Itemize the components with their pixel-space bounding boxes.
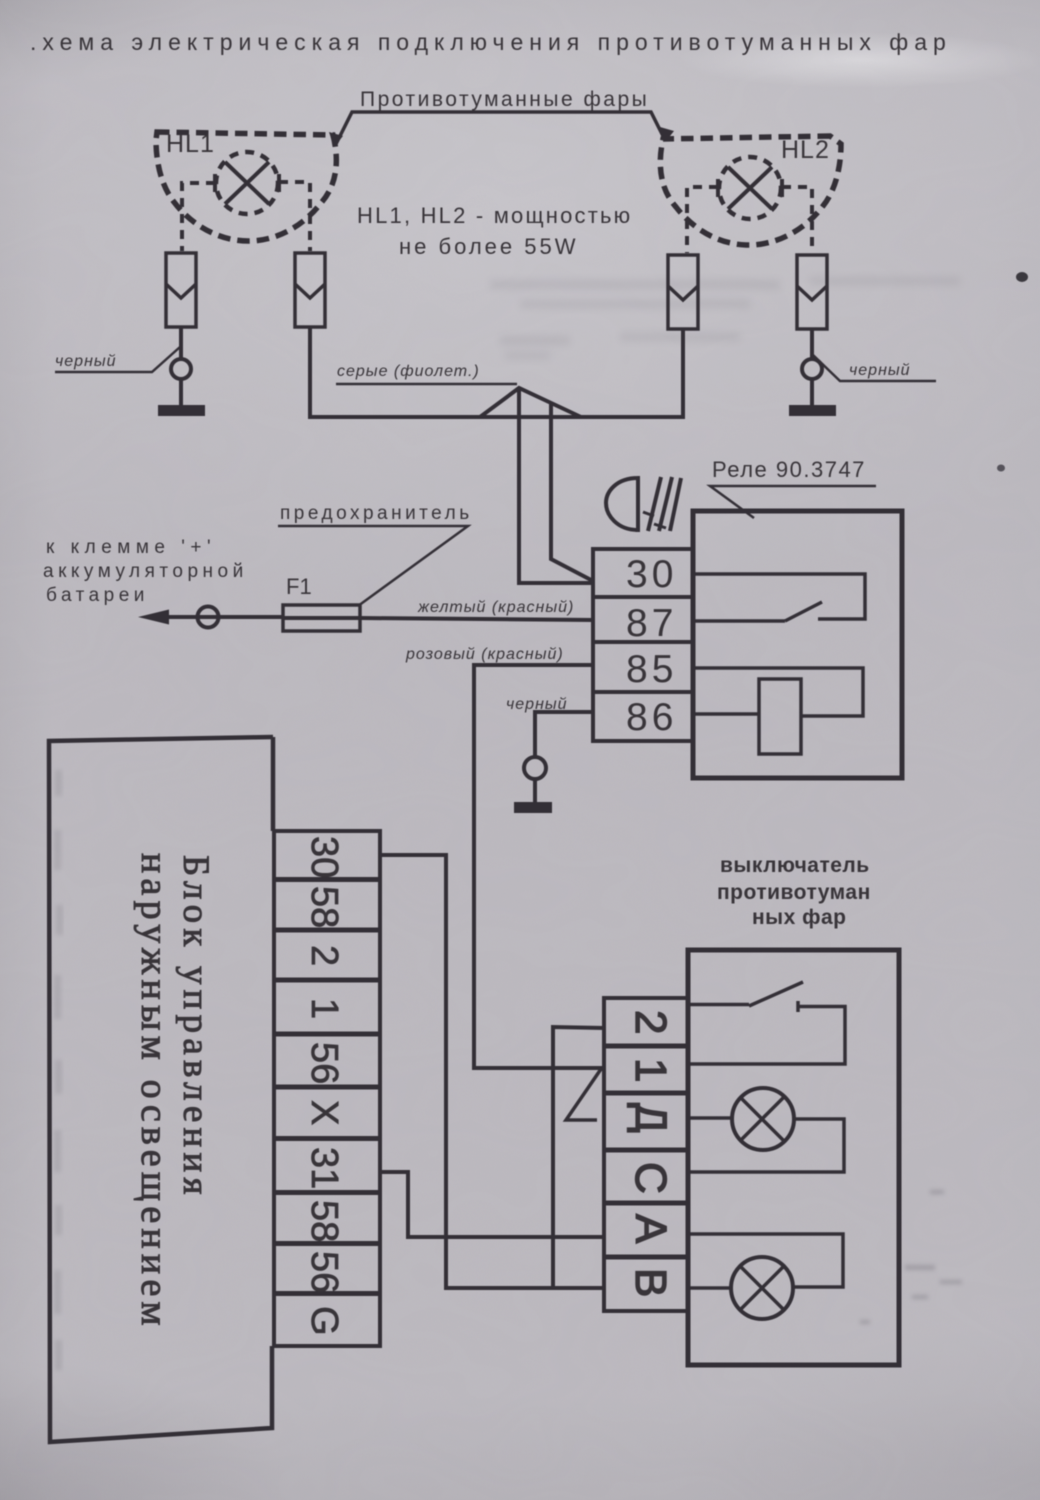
- relay pin 86: [593, 692, 693, 741]
- svg-text:86: 86: [626, 696, 677, 739]
- wire: HL2 lamp to connectors (dashed): [687, 187, 812, 253]
- svg-text:предохранитель: предохранитель: [280, 503, 473, 524]
- lamp symbol HL2: [718, 157, 782, 219]
- control unit pin 2: [303, 945, 345, 966]
- wire: X3 down: [681, 329, 685, 419]
- label: серые (фиолет.): [336, 363, 517, 384]
- wire: relay pin 86 to ground: [524, 712, 593, 802]
- svg-text:87: 87: [626, 602, 677, 645]
- switch pin Д: [626, 1103, 675, 1133]
- svg-text:аккумуляторной: аккумуляторной: [43, 561, 248, 582]
- relay pin 30: [593, 549, 693, 597]
- label: Реле 90.3747: [710, 457, 876, 518]
- label: наружным освещением (vertical): [133, 853, 175, 1331]
- control unit pin connector outline: [274, 831, 380, 1346]
- svg-text:А: А: [626, 1214, 675, 1244]
- scan artifact: ghost text band: [490, 277, 960, 359]
- control unit pin dividers: [274, 880, 380, 1294]
- wire: HL1 lamp to connectors (dashed): [182, 182, 310, 251]
- wire: battery to fuse: [162, 607, 283, 628]
- note: HL1 HL2 power rating: [357, 203, 632, 259]
- svg-text:Д: Д: [626, 1103, 675, 1133]
- svg-text:В: В: [626, 1268, 675, 1297]
- indicator lamp 2 (А-В): [688, 1234, 843, 1319]
- switch pin dividers: [604, 1046, 688, 1257]
- fog light icon: [606, 477, 681, 531]
- svg-text:31: 31: [303, 1147, 345, 1189]
- switch pin connector outline: [604, 998, 688, 1311]
- title: schematic caption: [30, 29, 952, 55]
- label: розовый (красный): [405, 646, 564, 663]
- label: Блок управления (vertical): [175, 855, 216, 1200]
- fog lamp HL1 outline: [156, 132, 336, 241]
- svg-text:56: 56: [303, 1042, 345, 1084]
- label: выключатель противотуманных фар: [717, 854, 871, 929]
- svg-text:розовый (красный): розовый (красный): [405, 646, 564, 663]
- svg-text:30: 30: [626, 553, 677, 596]
- control unit box: [49, 737, 273, 1442]
- svg-text:Противотуманные фары: Противотуманные фары: [360, 88, 649, 111]
- ground (HL2): [789, 405, 836, 416]
- svg-text:58: 58: [303, 1200, 345, 1242]
- ground (HL1): [158, 405, 205, 416]
- svg-text:HL1, HL2 - мощностью: HL1, HL2 - мощностью: [357, 203, 632, 228]
- svg-text:HL1: HL1: [166, 130, 215, 158]
- svg-text:к клемме '+': к клемме '+': [46, 537, 216, 558]
- control unit pin 1: [303, 998, 345, 1019]
- ground (relay pin 86): [514, 802, 552, 813]
- switch pin 2: [626, 1010, 675, 1034]
- wire: relay pin 85 to switch pin 1: [474, 665, 604, 1068]
- svg-text:2: 2: [303, 945, 345, 966]
- control unit pin G: [303, 1306, 345, 1336]
- wire: unit pin 30 to switch pin B: [380, 855, 604, 1288]
- designator HL1: [166, 130, 215, 158]
- svg-text:G: G: [303, 1306, 345, 1336]
- svg-text:черный: черный: [849, 362, 911, 379]
- lamp symbol HL1: [215, 152, 279, 214]
- connector X3 (HL2 feed side): [668, 255, 698, 329]
- switch pin В: [626, 1268, 675, 1297]
- wire: X4 to ground: [802, 329, 822, 405]
- label: к клемме + аккумуляторной батареи: [43, 537, 248, 606]
- wire: tap triangle to relay pin 30 (double line): [480, 388, 593, 583]
- svg-text:56: 56: [303, 1251, 345, 1293]
- indicator lamp 1 (Д-С): [688, 1088, 844, 1172]
- relay pin 85: [593, 642, 693, 692]
- svg-text:наружным освещением: наружным освещением: [133, 853, 175, 1331]
- connector X4 (HL2 ground side): [797, 255, 827, 329]
- switch SA1 box: [688, 950, 899, 1365]
- control unit pin 56: [303, 1042, 345, 1084]
- svg-text:Реле 90.3747: Реле 90.3747: [712, 457, 866, 482]
- switch pin 1: [626, 1058, 675, 1082]
- svg-text:С: С: [626, 1162, 675, 1194]
- svg-text:85: 85: [626, 648, 677, 691]
- switch pin С: [626, 1162, 675, 1194]
- designator HL2: [781, 136, 830, 164]
- relay pin 87: [593, 597, 693, 645]
- switch actuator link: [566, 1069, 601, 1120]
- svg-text:серые (фиолет.): серые (фиолет.): [337, 363, 480, 380]
- control unit pin 56b: [303, 1251, 345, 1293]
- wire: lamp bus horizontal: [308, 415, 681, 419]
- svg-text:Блок управления: Блок управления: [175, 855, 216, 1200]
- switch contact (2-1): [688, 982, 845, 1064]
- control unit pin 58b: [303, 1200, 345, 1242]
- relay coil (85-86): [693, 668, 863, 754]
- svg-text:F1: F1: [286, 574, 312, 599]
- scan artifact: left margin show-through: [54, 770, 63, 1370]
- connector X2 (HL1 feed side): [295, 253, 325, 327]
- bracket to fog lamps: [329, 112, 674, 147]
- scan artifact: dark dot right: [1016, 272, 1028, 282]
- svg-text:2: 2: [626, 1010, 675, 1034]
- svg-text:.хема электрическая подключени: .хема электрическая подключения противот…: [30, 29, 952, 55]
- switch pin А: [626, 1214, 675, 1244]
- svg-text:противотуман: противотуман: [717, 881, 871, 904]
- label: желтый (красный): [417, 599, 574, 616]
- control unit pin 31: [303, 1147, 345, 1189]
- svg-text:не более 55W: не более 55W: [399, 234, 579, 259]
- battery feed arrow: [138, 610, 169, 625]
- label: черный (right): [813, 355, 936, 381]
- label: черный (left): [55, 347, 180, 372]
- svg-text:58: 58: [303, 886, 345, 928]
- wire: unit pin 31 to switch pin A: [380, 1172, 604, 1237]
- svg-text:X: X: [303, 1100, 345, 1125]
- wire: X1 to ground: [171, 327, 191, 405]
- label: черный (relay): [506, 696, 568, 713]
- fog lamp HL2 outline: [660, 136, 841, 245]
- svg-text:30: 30: [303, 836, 345, 878]
- svg-text:батареи: батареи: [46, 585, 149, 606]
- svg-text:желтый (красный): желтый (красный): [417, 599, 574, 616]
- designator F1: [286, 574, 312, 599]
- connector X1 (HL1 ground side): [166, 253, 196, 327]
- label: Противотуманные фары: [360, 88, 649, 111]
- relay contact (30-87): [693, 574, 865, 621]
- control unit pin X: [303, 1100, 345, 1125]
- svg-text:ных фар: ных фар: [752, 906, 847, 929]
- svg-text:1: 1: [303, 998, 345, 1019]
- svg-text:HL2: HL2: [781, 136, 830, 164]
- wire: fuse to relay pin 87: [283, 618, 593, 620]
- wire: switch pin 2 junction: [553, 1027, 604, 1288]
- control unit pin 30: [303, 836, 345, 878]
- svg-text:выключатель: выключатель: [720, 854, 870, 877]
- fuse F1: [283, 605, 360, 631]
- control unit pin 58: [303, 886, 345, 928]
- label: предохранитель: [278, 503, 473, 606]
- svg-text:черный: черный: [55, 353, 117, 370]
- scan artifact: bottom right speckles: [860, 1190, 962, 1324]
- wire: X2 down: [308, 327, 312, 419]
- scan artifact: small dot: [997, 465, 1005, 472]
- svg-text:1: 1: [626, 1058, 675, 1082]
- relay K1 box: [693, 511, 902, 778]
